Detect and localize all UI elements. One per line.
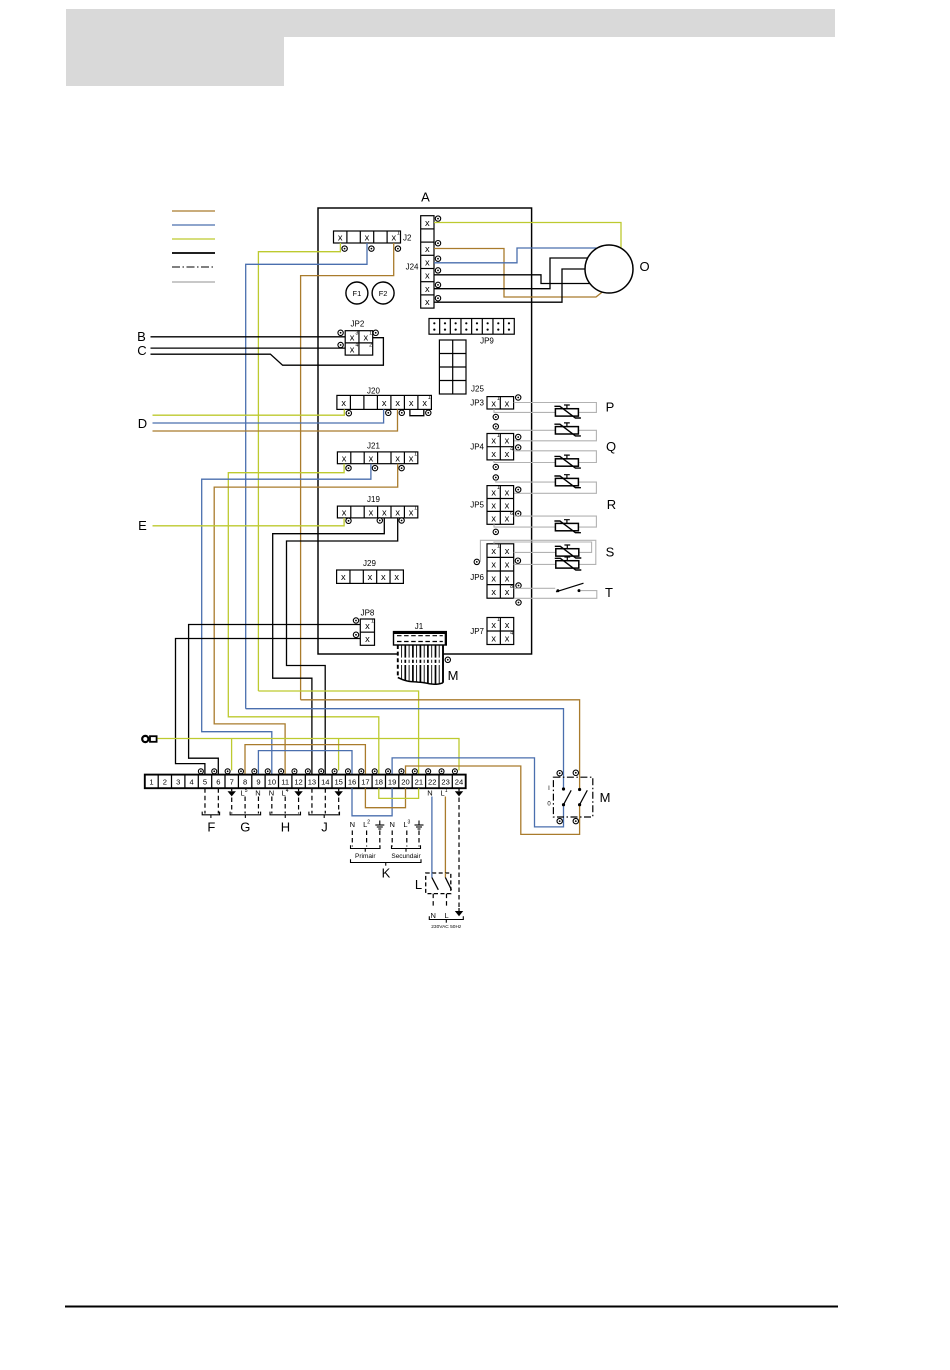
svg-text:Q: Q [606,439,616,454]
connector J19 [337,506,417,518]
svg-text:x: x [382,398,387,408]
jumper J20 6-7 [410,409,424,415]
svg-text:J19: J19 [367,495,380,504]
svg-text:x: x [491,560,496,570]
switch M box [553,777,592,817]
svg-text:2: 2 [163,778,167,787]
pcb board A outline [318,208,532,654]
connector JP4 [487,433,514,460]
svg-text:x: x [505,436,510,446]
svg-text:B: B [137,329,146,344]
svg-text:1: 1 [369,330,372,336]
wire J21-3 blue to t10 [202,464,371,775]
connector J29 [337,570,404,583]
sensor loop P return [494,409,555,412]
terminal J24-6 [435,296,440,301]
motor O [585,245,633,293]
svg-text:JP3: JP3 [470,399,484,408]
legend black wire [172,252,215,254]
wire D brown to J20-5 [153,409,398,431]
connector JP9 [429,319,514,335]
terminal t23 [439,769,444,774]
svg-text:x: x [369,453,374,463]
earth wire green long [157,739,459,771]
svg-text:4: 4 [510,631,513,637]
svg-text:1: 1 [414,506,417,512]
svg-text:J2: J2 [403,234,412,243]
thermistor P2 [554,423,581,436]
svg-text:10: 10 [268,778,276,787]
svg-text:JP5: JP5 [470,501,484,510]
jumper t16-t19 blue below [352,788,392,816]
svg-text:R: R [607,497,616,512]
connector J1 cable [397,645,444,684]
terminal JP8-2 [353,632,358,637]
svg-text:A: A [421,190,430,205]
wire J2-5 brown down-left [301,243,394,700]
dashed lead t24 [458,798,460,909]
svg-text:x: x [491,488,496,498]
svg-text:F1: F1 [353,289,362,298]
svg-text:T: T [605,585,613,600]
svg-text:J29: J29 [363,559,376,568]
dashed lead t10 [271,797,273,814]
svg-text:x: x [505,587,510,597]
svg-text:P: P [606,400,615,415]
wire J24 green to motor [434,223,621,249]
svg-text:x: x [505,633,510,643]
svg-text:JP8: JP8 [361,609,375,618]
terminal J19-4 [377,518,382,523]
terminal JP2 top-right [373,330,378,335]
svg-text:x: x [491,633,496,643]
svg-text:x: x [342,508,347,518]
sensor loop S inner left [514,551,556,553]
terminal J19-5 [399,518,404,523]
wire C upper to JP2 [151,347,346,349]
earth faston connector [142,736,156,742]
dashed lead K [418,831,420,847]
dashed lead K [391,831,393,847]
svg-text:F2: F2 [379,289,388,298]
svg-text:1: 1 [149,778,153,787]
earth branch t15 [338,739,340,771]
jumper t8-t17 brown [245,745,365,775]
terminal M top-left [557,771,562,776]
svg-text:x: x [409,398,414,408]
svg-text:N: N [269,788,274,797]
wire J24 black 2 to motor [434,258,588,289]
svg-text:N: N [389,820,394,829]
terminal J20-1 [346,411,351,416]
wire t23 brown stub in L [444,873,446,878]
svg-text:x: x [505,546,510,556]
dashed lead t6 [217,788,219,813]
terminal t14 [319,769,324,774]
terminal JP3 bottom [493,414,498,419]
svg-text:x: x [505,449,510,459]
connector J1 body [394,632,447,645]
dashed lead t8 [244,797,246,814]
jumper t18-t21 green below [379,788,419,798]
svg-text:x: x [491,546,496,556]
svg-text:24: 24 [455,778,463,787]
connector J21 [337,452,417,464]
svg-text:8: 8 [243,778,247,787]
svg-text:1: 1 [497,433,500,439]
fuse F1 [346,282,368,304]
svg-text:J25: J25 [471,385,484,394]
switch T wires [514,587,556,589]
svg-text:22: 22 [428,778,436,787]
svg-text:x: x [382,508,387,518]
svg-text:x: x [425,284,430,294]
terminal J20-4 [386,410,391,415]
svg-text:D: D [138,416,147,431]
svg-text:S: S [606,545,615,560]
svg-text:x: x [505,398,510,408]
wire t20 brown to M [406,766,580,834]
terminal t12 [292,769,297,774]
svg-text:Primair: Primair [355,853,376,860]
svg-text:G: G [240,820,250,835]
connector J2 [334,231,401,243]
svg-text:x: x [338,233,343,243]
svg-text:1: 1 [497,617,500,623]
svg-text:x: x [395,508,400,518]
connector J20 [337,395,432,409]
terminal t9 [252,769,257,774]
svg-text:x: x [491,513,496,523]
svg-text:11: 11 [281,778,289,787]
legend green wire [172,238,215,240]
svg-text:x: x [505,560,510,570]
sensor loop R feed [514,516,597,527]
bracket H [270,812,301,815]
thermistor Q1 [554,455,581,468]
switch L box [426,873,451,894]
earth branch t7 [231,739,233,771]
svg-text:x: x [491,573,496,583]
wire D blue to J20-4 [153,409,384,423]
terminal t10 [265,769,270,774]
svg-text:8: 8 [510,584,513,590]
dashed lead t12 [298,798,300,814]
svg-text:x: x [505,620,510,630]
earth arrow t12 [294,788,302,796]
svg-text:JP2: JP2 [351,320,365,329]
svg-text:x: x [422,398,427,408]
connector JP3 [487,396,514,409]
svg-text:x: x [425,218,430,228]
wire D green to J20-1 [153,409,345,415]
svg-text:x: x [365,233,370,243]
terminal JP6 r2 [515,558,520,563]
footer rule [65,1306,838,1308]
svg-text:x: x [369,508,374,518]
connector JP6 [487,543,514,598]
dashed lead K [406,831,408,847]
svg-text:16: 16 [348,778,356,787]
svg-text:13: 13 [308,778,316,787]
svg-text:1: 1 [428,395,431,401]
svg-text:230VAC 50Hz: 230VAC 50Hz [431,924,462,930]
svg-text:E: E [138,518,147,533]
bracket 230VAC [429,916,463,919]
svg-text:JP6: JP6 [470,573,484,582]
terminal sensor2 feed [493,424,498,429]
svg-text:x: x [395,398,400,408]
terminal JP6 left [474,559,479,564]
bracket J [309,812,340,815]
svg-text:5: 5 [203,778,207,787]
terminal t13 [305,769,310,774]
fuse F2 [372,282,394,304]
wire t22 blue stub in L [431,873,433,878]
thermistor S1 [555,545,582,558]
svg-text:N: N [430,911,435,920]
terminal t19 [386,769,391,774]
thermistor Q2 [554,475,581,488]
legend brown wire [172,210,215,212]
terminal JP5 r3 [516,511,521,516]
svg-text:x: x [341,398,346,408]
terminal t18 [372,769,377,774]
jumper t17-t20 brown below [365,788,405,808]
svg-text:J21: J21 [367,441,380,450]
thermistor S2 [555,557,582,570]
svg-text:9: 9 [256,778,260,787]
bracket Primair [351,845,381,848]
sensor loop 3 return [494,460,555,463]
sensor loop S outer [480,540,595,564]
switch T [556,583,584,592]
legend gray wire [172,281,215,283]
terminal J24-3 [435,256,440,261]
connector JP5 [487,485,514,524]
terminal JP8-1 [353,618,358,623]
earth arrow t24 bottom [455,908,463,916]
earth arrow t7 [228,788,236,796]
svg-text:JP7: JP7 [470,627,484,636]
terminal t20 [399,769,404,774]
svg-text:x: x [491,587,496,597]
terminal t15 [332,769,337,774]
wire J2-3 blue down-left [246,243,367,709]
dashed lead t15 [338,798,340,814]
wire t22 blue to L [431,797,433,878]
terminal J21-5 [399,465,404,470]
svg-text:x: x [350,332,355,342]
svg-text:19: 19 [388,778,396,787]
svg-text:x: x [425,271,430,281]
legend dash-dot wire [172,266,215,268]
bracket G [230,812,261,815]
svg-text:J: J [321,820,328,835]
terminal J20-7 [426,410,431,415]
earth symbol primair [375,821,384,830]
svg-text:4: 4 [355,343,358,349]
svg-text:J20: J20 [367,386,380,395]
terminal t8 [238,769,243,774]
svg-text:x: x [365,634,370,644]
wire J2-1 green down-left [258,243,340,691]
terminal t22 [426,769,431,774]
earth arrow t15 [334,788,342,796]
svg-text:1: 1 [371,619,374,625]
terminal M bottom-left [557,818,562,823]
wire J24 brown to motor [434,249,602,298]
terminal JP2 left-mid [338,342,343,347]
dashed lead t14 [324,788,326,813]
wire t21 green through [258,691,418,788]
svg-text:Secundair: Secundair [391,853,421,860]
svg-text:JP9: JP9 [480,336,494,345]
dashed lead L-L [446,894,448,909]
sensor loop S outer left [514,563,556,565]
wire C lower to JP2 right [151,338,384,366]
terminal JP6 r4 [516,583,521,588]
svg-text:x: x [505,573,510,583]
wire t23 brown to L [444,797,446,878]
terminal JP4 r1 [516,434,521,439]
svg-text:x: x [505,500,510,510]
terminal J21-1 [346,465,351,470]
terminal t7 [225,769,230,774]
svg-text:1: 1 [397,231,400,237]
wire J24 black 1 to motor [434,275,590,284]
sensor loop 4 feed [496,480,556,482]
wire J19-5 black to t14 [287,518,398,788]
terminal J24-2 [435,241,440,246]
svg-text:6: 6 [216,778,220,787]
svg-text:6: 6 [510,511,513,517]
sensor loop R return [494,524,555,527]
terminal JP4 r2 [516,445,521,450]
svg-text:F: F [207,820,215,835]
svg-text:L: L [445,911,449,920]
terminal JP5 bottom [493,529,498,534]
terminal J21-3 [372,465,377,470]
dashed lead K [351,831,353,847]
svg-text:x: x [505,488,510,498]
terminal sensor4 feed [493,475,498,480]
terminal J24-4 [435,268,440,273]
svg-text:x: x [409,508,414,518]
dashed lead L-N [432,894,434,909]
svg-text:x: x [425,244,430,254]
svg-text:x: x [342,453,347,463]
connector JP7 [487,617,514,644]
svg-text:17: 17 [361,778,369,787]
svg-text:1: 1 [497,396,500,402]
terminal J2-1 [342,246,347,251]
dashed lead t9 [257,797,259,814]
dashed lead K [379,831,381,847]
svg-text:12: 12 [294,778,302,787]
svg-text:18: 18 [375,778,383,787]
wire J24 blue to motor [434,248,597,263]
svg-text:M: M [600,790,611,805]
terminal J24-1 [435,216,440,221]
terminal M top-right [573,770,578,775]
terminal JP2 top-left [338,330,343,335]
terminal JP3 right [516,395,521,400]
svg-text:H: H [281,820,290,835]
switch L levers [432,878,452,890]
wire J21-5 brown to t11 [214,464,398,775]
terminal JP5 r1 [516,487,521,492]
svg-text:C: C [137,343,146,358]
svg-text:x: x [505,513,510,523]
svg-text:x: x [491,398,496,408]
dashed lead t13 [311,788,313,813]
connector J25 [439,340,466,394]
dashed lead t5 [204,788,206,813]
connector JP8 [360,619,374,646]
svg-text:23: 23 [441,778,449,787]
sensor loop S inner [494,542,592,552]
svg-text:x: x [363,332,368,342]
terminal M bottom-right [573,818,578,823]
terminal JP6 bottom [516,600,521,605]
dashed lead t11 [284,797,286,814]
bracket F [202,812,219,815]
wire JP8-2 black to t5 [176,639,361,775]
svg-text:x: x [350,345,355,355]
svg-text:3: 3 [176,778,180,787]
svg-text:x: x [394,572,399,582]
svg-text:L: L [415,877,422,892]
svg-text:N: N [350,820,355,829]
sensor loop P feed [514,403,597,413]
svg-text:x: x [391,233,396,243]
svg-text:O: O [639,259,649,274]
svg-text:15: 15 [334,778,342,787]
terminal J24-5 [435,282,440,287]
bracket K [351,859,422,862]
svg-text:JP4: JP4 [470,443,484,452]
terminal t24 [452,769,457,774]
connector JP2 [345,330,373,355]
dashed lead K [366,831,368,847]
svg-text:x: x [491,449,496,459]
svg-text:1: 1 [414,452,417,458]
wire JP8-1 black to t6 [189,625,361,775]
wire t19 blue to M [392,758,563,827]
svg-text:x: x [409,453,414,463]
terminal t21 [412,769,417,774]
connector J24 [421,216,434,308]
svg-text:2: 2 [369,343,372,349]
sensor loop 4 return [514,482,597,493]
svg-text:J24: J24 [406,263,419,272]
sensor loop 2 feed [496,429,556,430]
terminal t6 [212,769,217,774]
svg-text:4: 4 [510,446,513,452]
svg-text:N: N [255,788,260,797]
svg-text:x: x [491,620,496,630]
svg-text:M: M [448,668,459,683]
wire J19-4 black to t13 [273,518,385,788]
sensor loop 2 return [514,430,597,441]
wire M top-right brown [301,700,580,790]
svg-text:x: x [491,500,496,510]
switch M contacts [562,787,587,806]
thermistor R [554,520,581,533]
terminal t5 [198,769,203,774]
header bar top [284,9,835,37]
